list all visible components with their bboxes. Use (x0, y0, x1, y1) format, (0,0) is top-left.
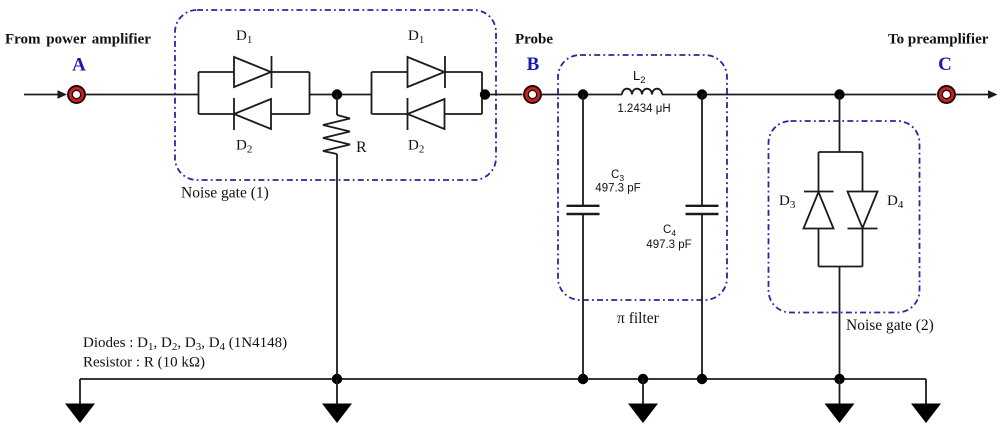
wire output C (956, 94, 989, 96)
noise gate (2) enclosure (769, 121, 920, 313)
gate2 loop wires (819, 152, 863, 267)
wire input A (24, 94, 58, 96)
input arrowhead (58, 90, 68, 98)
svg-text:Diodes : D1, D2, D3, D4 (1N41: Diodes : D1, D2, D3, D4 (1N4148) (83, 335, 287, 353)
wire A to noise gate 1 (86, 94, 199, 96)
noise gate (1) enclosure (175, 10, 496, 180)
resistor R (323, 95, 350, 155)
svg-text:To preamplifier: To preamplifier (888, 32, 989, 48)
ground rail wire (80, 378, 926, 380)
ground symbol right (911, 379, 941, 423)
svg-text:A: A (72, 55, 86, 76)
diode pair 2 loop wires (372, 72, 483, 114)
junction node (resistor tap) (332, 89, 342, 99)
junction node (C3 top) (578, 89, 588, 99)
rail junction (C4) (697, 374, 707, 384)
capacitor C3 (567, 95, 600, 380)
connector B (red ring) (524, 86, 541, 103)
diode D1 (second pair) (408, 56, 446, 88)
rail junction (resistor) (332, 374, 342, 384)
diode D3 (804, 192, 834, 229)
svg-text:Resistor : R (10 kΩ): Resistor : R (10 kΩ) (83, 355, 205, 371)
output arrowhead (988, 90, 998, 98)
ground symbol mid (628, 379, 658, 423)
svg-text:C: C (938, 54, 952, 75)
wire B to L2 (542, 94, 622, 96)
svg-text:497.3 pF: 497.3 pF (646, 239, 691, 251)
svg-text:From power amplifier: From power amplifier (5, 32, 151, 48)
svg-text:π filter: π filter (617, 310, 660, 327)
rail junction (C3) (578, 374, 588, 384)
svg-text:B: B (527, 54, 540, 75)
wire tap into gate2 (839, 95, 841, 153)
junction node (gate2 tap) (834, 89, 844, 99)
wire pair1 to pair2 (310, 94, 372, 96)
diode D2 (first pair) (234, 98, 271, 130)
connector A (red ring) (68, 86, 85, 103)
wire L2 to C4 top (662, 94, 702, 96)
svg-text:R: R (356, 139, 367, 156)
wire resistor to ground rail (336, 154, 338, 379)
rail junction (gate2) (834, 374, 844, 384)
connector C (red ring) (938, 86, 955, 103)
svg-text:Noise gate (1): Noise gate (1) (181, 185, 269, 202)
wire gate2 to ground rail (839, 267, 841, 380)
capacitor C4 (686, 95, 719, 380)
pi filter enclosure (558, 55, 727, 300)
junction node (C4 top) (697, 89, 707, 99)
wire pair2 to probe B (482, 94, 523, 96)
diode D2 (second pair) (408, 98, 445, 130)
diode D1 (first pair) (234, 56, 272, 88)
diode pair 1 loop wires (199, 72, 310, 114)
ground symbol gate2 (825, 379, 855, 423)
rail junction (mid ground) (638, 374, 648, 384)
svg-text:1.2434 μH: 1.2434 μH (617, 103, 670, 115)
ground symbol left (65, 379, 95, 423)
svg-text:Noise gate (2): Noise gate (2) (846, 317, 934, 334)
inductor L2 (622, 89, 662, 95)
diode D4 (848, 192, 878, 229)
junction node (gate1 output) (480, 89, 490, 99)
ground symbol resistor (322, 379, 352, 423)
svg-text:Probe: Probe (515, 32, 553, 48)
svg-text:497.3 pF: 497.3 pF (595, 183, 640, 195)
wire C4 top to gate2 tap (702, 94, 937, 96)
